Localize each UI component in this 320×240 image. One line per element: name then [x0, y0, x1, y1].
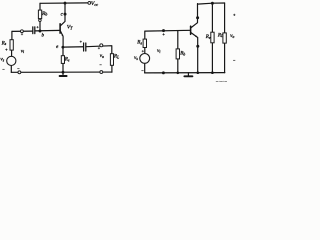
svg-text:Vcc: Vcc — [91, 1, 98, 7]
svg-text:VT: VT — [67, 25, 73, 31]
svg-text:— · — · —: — · — · — — [215, 81, 228, 84]
